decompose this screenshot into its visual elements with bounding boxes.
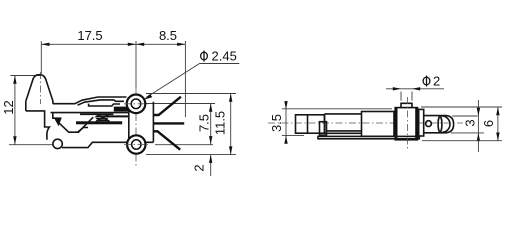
dim 12 [1, 76, 17, 145]
arm mid line [89, 104, 120, 106]
body: left step profile [26, 111, 50, 140]
upper hole inner [131, 99, 141, 109]
extension 6 bottom [422, 140, 502, 142]
lug hole [426, 121, 432, 127]
dim 17.5 dimension line [41, 28, 136, 46]
dim 6 [481, 107, 500, 141]
arm second blade line [78, 100, 125, 105]
contact stack bar3 [95, 120, 109, 121]
black band before hole [114, 107, 129, 112]
contact stack X left diagonal [97, 114, 110, 122]
tab on top of block [401, 103, 412, 107]
tube D [325, 114, 362, 133]
arm lower white bar edge [80, 113, 113, 115]
label phi2.45 [144, 49, 240, 100]
svg-text:7.5: 7.5 [197, 114, 212, 132]
lug end narrow ellipse [438, 117, 442, 132]
dim 3 [463, 100, 481, 152]
lower hole outer [127, 135, 145, 153]
svg-text:3: 3 [463, 119, 478, 126]
extension line 12 top [11, 75, 41, 77]
extension 3 top [452, 115, 477, 117]
extension 6 top [421, 106, 502, 108]
svg-text:8.5: 8.5 [159, 28, 177, 43]
body: pivot triangle [53, 113, 62, 118]
horizontal centerline [268, 122, 463, 124]
svg-text:3.5: 3.5 [269, 114, 284, 132]
pin bottom diagonal [153, 131, 180, 149]
carriage rectangle between holes [129, 102, 154, 143]
block F [395, 108, 417, 140]
dim 11.5 [213, 94, 233, 155]
svg-text:12: 12 [1, 100, 16, 114]
centerline through holes [135, 87, 137, 167]
svg-text:2: 2 [433, 74, 440, 89]
arm bottom long line [51, 112, 130, 114]
body: cavity V [57, 121, 88, 132]
extension line middle (hole center) [135, 41, 137, 88]
dim 2 [192, 155, 213, 176]
side layer right of block [419, 109, 424, 136]
lower hole h-centerline [124, 144, 148, 146]
pin top diagonal [153, 97, 181, 115]
small box C [320, 122, 327, 135]
vertical centerline of block [406, 97, 408, 150]
svg-text:17.5: 17.5 [77, 28, 102, 43]
body: base bottom outline [62, 142, 127, 147]
contact stack X right diagonal [97, 114, 110, 122]
box divider [307, 115, 309, 133]
dim 7.5 [197, 104, 213, 145]
extension 3.5 bottom [282, 135, 304, 137]
extension line 12 bottom / 7.5 bottom [9, 144, 53, 146]
body: dome (bell) [26, 75, 53, 111]
extension 3 bottom [451, 132, 484, 134]
contact stack thick bar [76, 121, 122, 124]
dim 8.5 dimension line [136, 28, 185, 46]
upper hole outer [127, 95, 146, 114]
pin middle bar [153, 122, 184, 124]
box A/B left body [296, 115, 325, 133]
contact stack bar2 [96, 118, 109, 120]
extension 3.5 top (long shared reference) [282, 108, 392, 110]
barrel E [362, 112, 395, 137]
dim phi2 [386, 74, 444, 101]
svg-text:2.45: 2.45 [212, 49, 237, 64]
dim 3.5 [269, 101, 288, 144]
extension line 11.5 top (pin tip level) [146, 93, 236, 95]
extension line left (dome center) [40, 41, 42, 74]
bottom plate [318, 136, 419, 138]
upper hole h-centerline [124, 103, 148, 105]
lug end arc [442, 116, 450, 132]
extension line bottom (part bottom) [146, 154, 236, 156]
lower hole inner [132, 140, 141, 149]
svg-text:6: 6 [481, 120, 496, 127]
svg-text:2: 2 [192, 164, 207, 171]
extension line right (pin tip) [184, 41, 186, 117]
arm top blade line [53, 97, 127, 104]
lug pin body [424, 116, 454, 133]
svg-text:11.5: 11.5 [213, 111, 228, 135]
lever diagonal [78, 117, 93, 133]
centerline dome vertical [40, 72, 42, 104]
contact stack bar1 [95, 115, 129, 117]
extension line 7.5 top (upper hole center) [146, 103, 215, 105]
body: base small circle [53, 139, 62, 148]
